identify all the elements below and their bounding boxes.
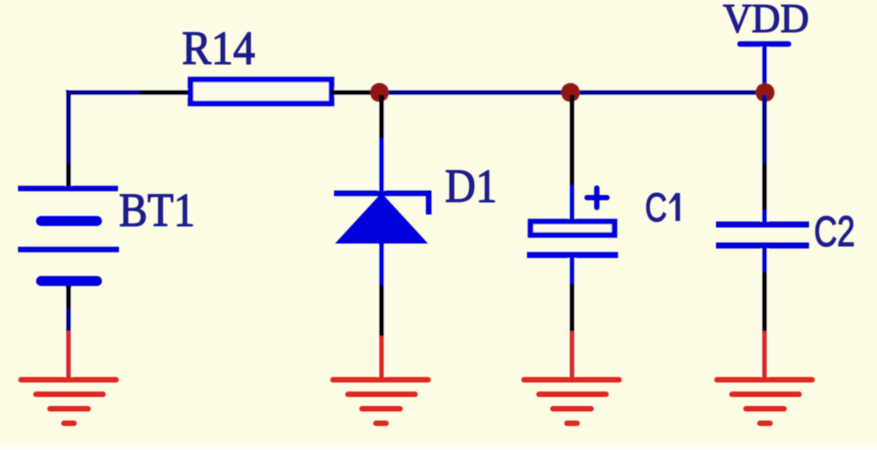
svg-text:VDD: VDD bbox=[723, 0, 809, 41]
ground (battery) bbox=[21, 331, 116, 423]
wire: resistor left pin (black) bbox=[140, 90, 190, 95]
junction node 1 bbox=[370, 83, 389, 102]
battery BT1 bbox=[18, 163, 119, 308]
wire: node3 down (navy) bbox=[762, 95, 767, 164]
wire: node2 down stub (black) bbox=[570, 95, 575, 185]
wire: top bus node2 to node3 (navy) bbox=[571, 90, 765, 95]
capacitor C1 (polarized) bbox=[527, 185, 618, 284]
wire: battery top rail (navy corner from battery up to resistor) bbox=[66, 90, 140, 163]
svg-text:C: C bbox=[645, 186, 667, 230]
wire: C1 to ground (black) bbox=[570, 284, 575, 331]
power port VDD bbox=[740, 44, 789, 93]
svg-text:C2: C2 bbox=[814, 208, 855, 256]
wire: top bus node1 to node2 (navy) bbox=[379, 90, 571, 95]
wire: to C2 (black) bbox=[762, 164, 767, 210]
junction node 2 bbox=[561, 83, 580, 102]
junction node 3 bbox=[756, 83, 775, 102]
wire: node1 down stub (black) bbox=[379, 95, 384, 138]
wire: diode to ground (black) bbox=[379, 285, 384, 336]
wire: resistor right pin (black) bbox=[331, 90, 372, 95]
ground (D1) bbox=[333, 336, 428, 423]
ground (C2) bbox=[717, 331, 812, 423]
svg-text:D1: D1 bbox=[445, 160, 497, 213]
wire: battery to ground (navy) bbox=[66, 308, 71, 331]
capacitor C2 bbox=[716, 210, 809, 272]
white halo underlay for wires bbox=[69, 46, 766, 377]
label C1 bbox=[645, 186, 680, 230]
ground (C1) bbox=[524, 331, 619, 423]
zener diode D1 bbox=[334, 138, 429, 285]
svg-text:R14: R14 bbox=[182, 22, 255, 75]
wire: C2 to ground (black) bbox=[762, 272, 767, 331]
resistor R14 bbox=[191, 80, 332, 104]
svg-text:BT1: BT1 bbox=[119, 184, 195, 237]
